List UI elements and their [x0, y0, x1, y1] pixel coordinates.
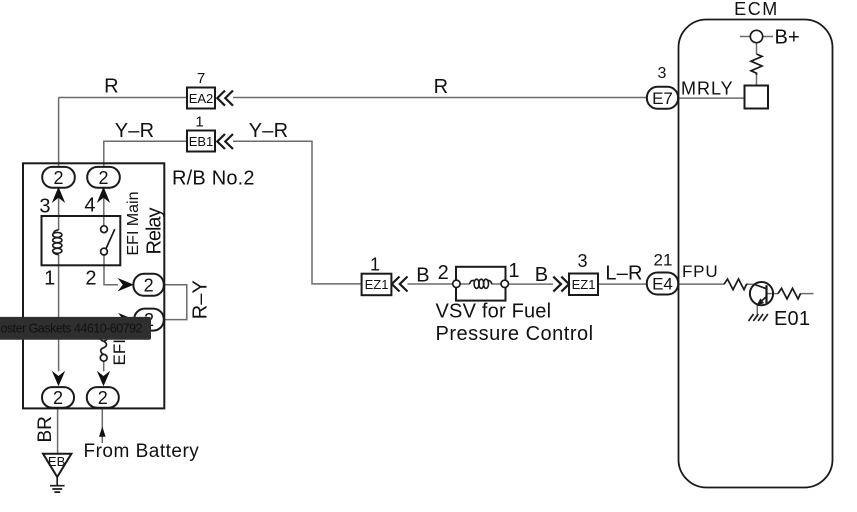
- svg-text:B: B: [535, 264, 549, 286]
- arrow down into bottom-right oval: [97, 371, 110, 386]
- svg-text:EFI: EFI: [110, 339, 129, 365]
- svg-text:EB1: EB1: [189, 134, 214, 149]
- ground EB stem: [56, 477, 58, 485]
- svg-text:EA2: EA2: [189, 91, 214, 106]
- E4 connector oval: [647, 273, 678, 295]
- B+ node circle: [750, 30, 762, 42]
- svg-text:2: 2: [53, 168, 63, 188]
- wire FPU from E4 through ECM border to resistor: [678, 283, 724, 285]
- VSV box: [456, 267, 506, 301]
- relay coil: [53, 230, 58, 234]
- svg-text:Pressure Control: Pressure Control: [436, 323, 594, 345]
- chevrons at EZ1 left: [392, 277, 408, 292]
- arrow right into right oval B: [118, 313, 134, 326]
- transistor emitter diagonal: [758, 297, 766, 304]
- wire fuse branch to second oval: [104, 319, 118, 321]
- svg-text:From Battery: From Battery: [84, 441, 200, 462]
- svg-text:L–R: L–R: [605, 263, 642, 285]
- transistor emitter arrowhead: [757, 298, 765, 305]
- wire resistor to MRLY square: [756, 75, 758, 86]
- wire transistor collector out: [767, 293, 779, 295]
- svg-text:E7: E7: [652, 89, 673, 108]
- connector oval 2 top-left (pin 3): [42, 167, 75, 188]
- svg-text:Y–R: Y–R: [249, 120, 289, 142]
- svg-text:R–Y: R–Y: [190, 280, 212, 319]
- svg-text:EZ1: EZ1: [572, 277, 596, 292]
- svg-text:E4: E4: [652, 275, 673, 294]
- svg-text:7: 7: [197, 70, 205, 87]
- svg-text:Y–R: Y–R: [115, 120, 155, 142]
- fuse EFI top circle: [100, 334, 107, 341]
- bracket R-Y joining right ovals: [164, 285, 187, 320]
- transistor Q1 circle: [750, 282, 773, 305]
- ground EB triangle: [43, 454, 71, 477]
- svg-text:oster Gaskets 44610-60792: oster Gaskets 44610-60792: [1, 322, 143, 336]
- tooltip overlay: Booster Gaskets 44610-60792: [0, 317, 151, 340]
- svg-text:2: 2: [98, 388, 108, 408]
- wire R vertical down to relay box pin 3: [58, 98, 60, 168]
- VSV pin 1 circle: [501, 280, 508, 287]
- wire fuse vertical upper: [103, 320, 105, 335]
- arrow up into pin3 oval: [52, 187, 65, 203]
- chevrons at EA2: [217, 91, 233, 106]
- wire Y-R from relay pin 4 up and right to EB1: [104, 141, 187, 167]
- svg-text:1: 1: [508, 260, 519, 282]
- wire relay switch pin4 vertical: [103, 187, 105, 226]
- wire transistor output right of resistor: [800, 293, 814, 295]
- svg-text:R/B No.2: R/B No.2: [172, 168, 255, 190]
- svg-text:EZ1: EZ1: [365, 277, 389, 292]
- svg-text:FPU: FPU: [682, 262, 718, 281]
- svg-text:1: 1: [370, 255, 380, 275]
- wire MRLY from E7 to internal square: [678, 97, 745, 99]
- VSV coil: [470, 280, 475, 284]
- svg-text:MRLY: MRLY: [681, 79, 734, 99]
- svg-text:B: B: [416, 265, 430, 287]
- svg-text:3: 3: [658, 65, 667, 82]
- fuse EFI S-curve: [101, 341, 107, 354]
- ECM box: [679, 20, 833, 488]
- connector oval 2 top-right (pin 4): [87, 167, 120, 188]
- ground hatch E01: [749, 314, 768, 321]
- wire relay coil vertical pin3 to pin1 arrow: [58, 187, 60, 230]
- relay switch blade: [106, 229, 115, 248]
- svg-text:3: 3: [577, 251, 587, 271]
- svg-text:ECM: ECM: [734, 0, 779, 19]
- chevrons at EB1: [217, 134, 233, 149]
- resistor horizontal collector: [778, 288, 801, 299]
- arrow up from battery: [99, 427, 106, 437]
- wire fuse to bottom arrow: [103, 361, 105, 371]
- transistor base diagonal in: [754, 284, 766, 289]
- EZ1 connector box right: [569, 274, 598, 296]
- svg-text:R: R: [104, 76, 119, 98]
- svg-text:3: 3: [39, 196, 50, 218]
- arrow down into bottom-left oval: [52, 371, 65, 386]
- wire E4 resistor to transistor: [746, 283, 754, 285]
- wire L-R from EZ1 to E4: [598, 283, 647, 285]
- wire transistor emitter to ground: [756, 304, 758, 317]
- svg-text:4: 4: [84, 195, 95, 217]
- svg-text:2: 2: [85, 268, 96, 290]
- fuse EFI bottom circle: [100, 354, 107, 361]
- wire Y-R from EB1 chevron right and down to EZ1 pin1: [233, 141, 362, 284]
- svg-text:2: 2: [144, 275, 154, 295]
- resistor horizontal FPU: [724, 279, 747, 290]
- wire B+ node horizontal: [740, 36, 773, 38]
- svg-text:2: 2: [53, 388, 63, 408]
- wire BR from bottom oval to EB ground: [57, 408, 59, 454]
- EA2 connector box: [187, 88, 215, 109]
- svg-text:B+: B+: [775, 27, 800, 49]
- connector oval 2 bottom-right: [87, 387, 119, 408]
- wire relay switch pin2 down and right to oval: [104, 255, 118, 285]
- arrow up into pin4 oval: [97, 187, 110, 203]
- wire B+ to resistor: [756, 43, 758, 55]
- svg-text:2: 2: [98, 168, 108, 188]
- ground EB hatch lines: [50, 486, 65, 492]
- svg-text:BR: BR: [35, 416, 56, 442]
- svg-text:1: 1: [195, 114, 203, 131]
- connector oval 2 right-A: [133, 274, 163, 296]
- E7 connector oval: [647, 87, 678, 109]
- relay switch contact circles: [101, 226, 108, 233]
- wire B from VSV pin 1 to chevrons: [509, 283, 554, 285]
- EB1 connector box: [187, 131, 215, 152]
- connector oval 2 bottom-left: [42, 387, 74, 408]
- EZ1 connector box left: [362, 274, 392, 296]
- wire R horizontal top-left to EA2: [59, 97, 187, 99]
- EFI Main Relay inner box: [42, 216, 121, 265]
- chevrons at EZ1 right: [553, 277, 569, 292]
- svg-text:E01: E01: [774, 308, 810, 330]
- svg-text:R: R: [434, 76, 449, 98]
- wire R from EA2 chevron to E7: [233, 97, 647, 99]
- transistor base bar: [765, 285, 767, 303]
- wire B from EZ1 chevron to VSV pin 2: [408, 283, 453, 285]
- wire inside VSV coil to right pin: [492, 283, 501, 285]
- wire from battery vertical: [101, 408, 103, 443]
- svg-text:VSV for Fuel: VSV for Fuel: [436, 301, 552, 323]
- svg-text:Relay: Relay: [144, 208, 166, 255]
- R/B No.2 box: [23, 163, 164, 408]
- arrow right into right oval A: [118, 278, 134, 291]
- svg-text:EFI Main: EFI Main: [125, 191, 142, 255]
- VSV pin 2 circle: [453, 280, 460, 287]
- wire inside VSV left pin to coil: [460, 283, 469, 285]
- svg-text:2: 2: [438, 262, 449, 284]
- MRLY driver square: [745, 86, 769, 109]
- svg-text:21: 21: [654, 251, 673, 270]
- connector oval 2 right-B: [134, 309, 164, 331]
- svg-text:EB: EB: [48, 454, 65, 469]
- resistor vertical below B+: [751, 54, 762, 75]
- svg-text:1: 1: [44, 268, 55, 290]
